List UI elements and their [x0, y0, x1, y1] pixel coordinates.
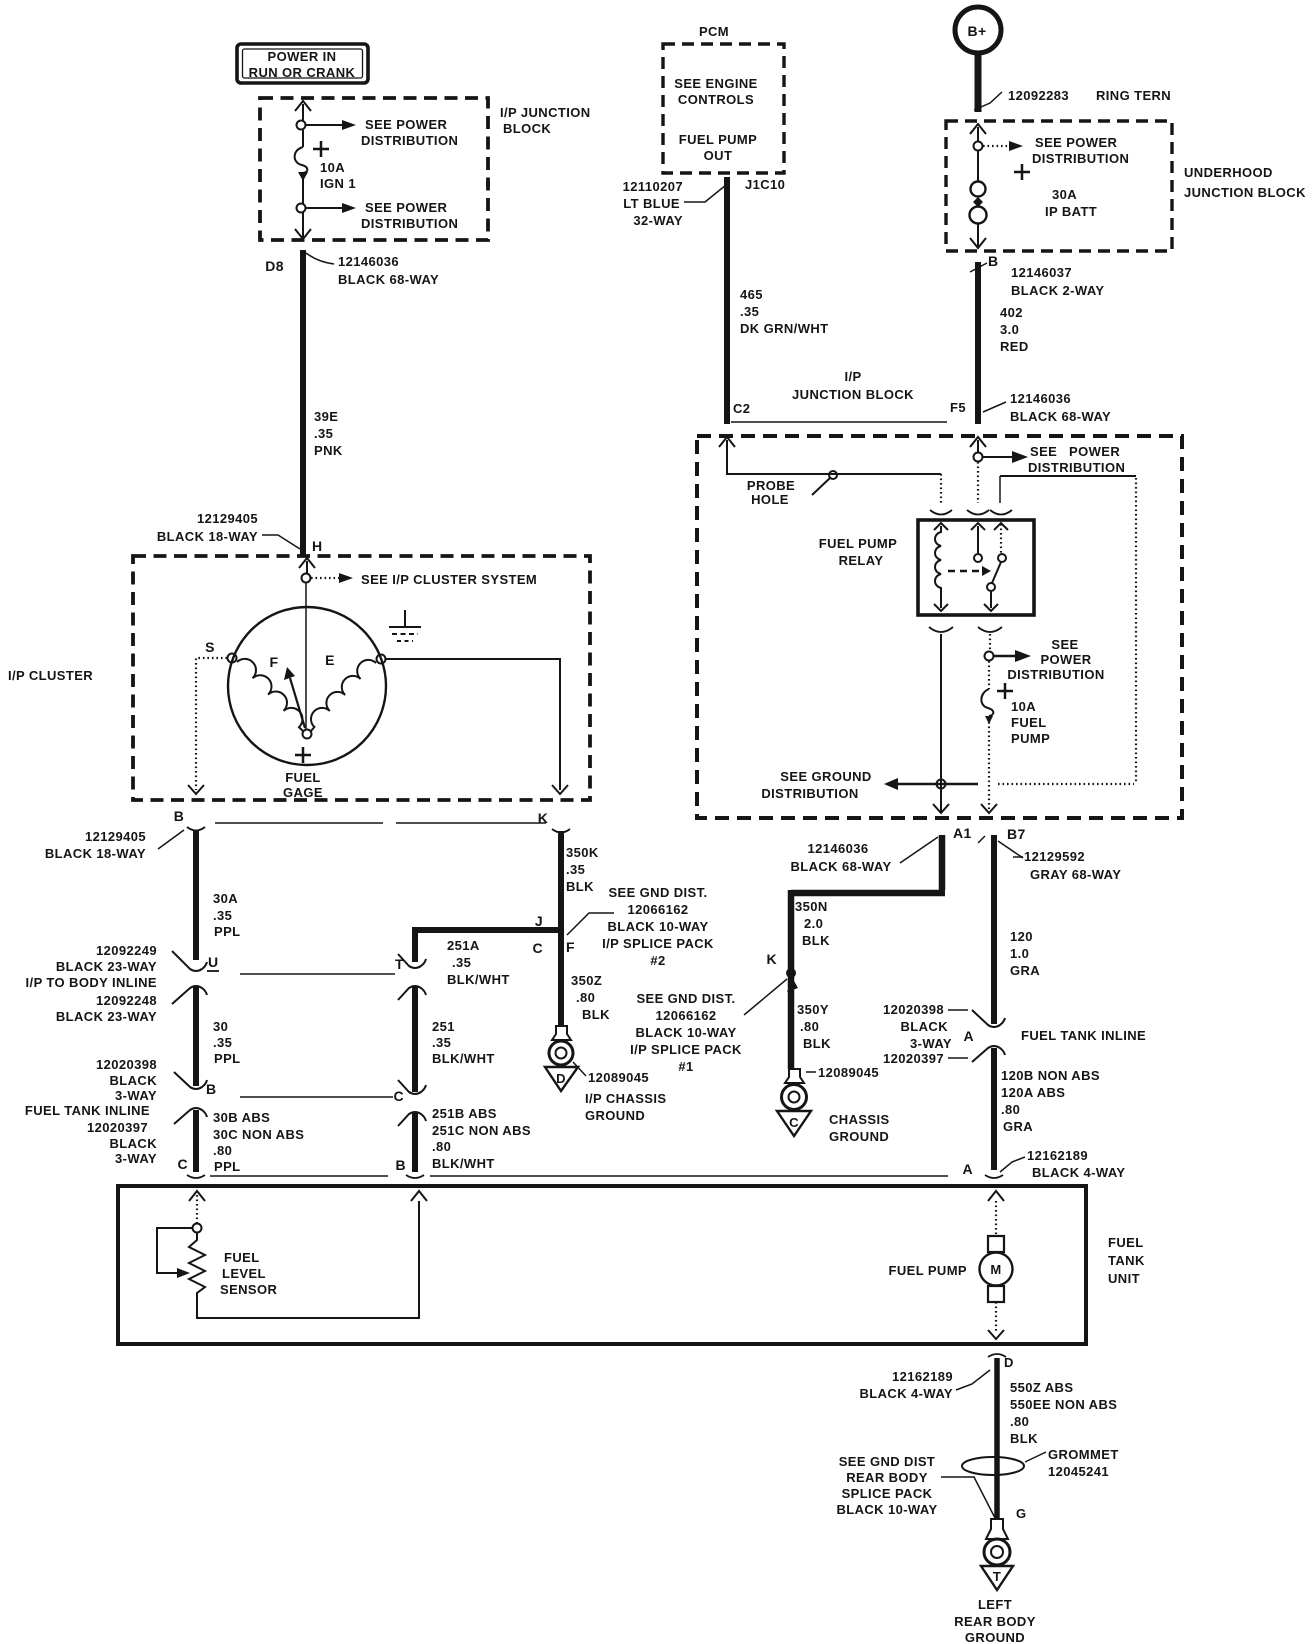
svg-text:DISTRIBUTION: DISTRIBUTION [1028, 460, 1125, 475]
node: ign feed terminal [297, 121, 306, 130]
relay coil [934, 523, 948, 611]
svg-text:30A: 30A [213, 891, 238, 906]
I/P cluster box [133, 556, 590, 800]
svg-text:BLACK 10-WAY: BLACK 10-WAY [607, 919, 708, 934]
svg-text:I/P SPLICE PACK: I/P SPLICE PACK [602, 936, 714, 951]
pin A at tank [962, 1148, 1125, 1180]
svg-text:550Z ABS: 550Z ABS [1010, 1380, 1073, 1395]
svg-text:FUEL PUMP: FUEL PUMP [679, 132, 757, 147]
fuse 10A IGN 1 [295, 130, 356, 204]
svg-text:12146037: 12146037 [1011, 265, 1072, 280]
pin B7 [978, 826, 1121, 882]
svg-text:T: T [993, 1569, 1001, 1584]
svg-text:.80: .80 [1001, 1102, 1020, 1117]
arrow see power distribution (mid) [994, 637, 1105, 682]
underhood junction block box [946, 121, 1172, 251]
svg-text:.80: .80 [213, 1143, 232, 1158]
svg-text:PPL: PPL [214, 924, 240, 939]
svg-text:I/P JUNCTION: I/P JUNCTION [500, 105, 591, 120]
svg-text:BLACK 18-WAY: BLACK 18-WAY [45, 846, 146, 861]
svg-text:POWER: POWER [1040, 652, 1091, 667]
wire 350Y .80 BLK [797, 1002, 831, 1051]
svg-text:FUEL PUMP: FUEL PUMP [819, 536, 897, 551]
node ign-feed terminal in block [974, 453, 983, 462]
fuse 10A fuel pump [981, 661, 1050, 812]
svg-text:12066162: 12066162 [655, 1008, 716, 1023]
svg-text:B: B [174, 808, 185, 824]
svg-text:J1C10: J1C10 [745, 177, 785, 192]
fuel level sensor [157, 1195, 419, 1318]
svg-text:SEE GROUND: SEE GROUND [780, 769, 871, 784]
wire S to pin B [196, 658, 227, 790]
svg-text:LEVEL: LEVEL [222, 1266, 266, 1281]
svg-text:1.0: 1.0 [1010, 946, 1029, 961]
svg-text:12089045: 12089045 [588, 1070, 649, 1085]
svg-text:J: J [535, 913, 543, 929]
svg-text:#1: #1 [678, 1059, 693, 1074]
svg-text:FUEL TANK INLINE: FUEL TANK INLINE [1021, 1028, 1146, 1043]
svg-text:SEE I/P CLUSTER SYSTEM: SEE I/P CLUSTER SYSTEM [361, 572, 537, 587]
svg-text:PROBE: PROBE [747, 478, 795, 493]
svg-text:.35: .35 [213, 1035, 232, 1050]
svg-text:I/P: I/P [844, 369, 861, 384]
svg-text:BLACK 18-WAY: BLACK 18-WAY [157, 529, 258, 544]
svg-text:12020398: 12020398 [883, 1002, 944, 1017]
wire ign feed entering block [295, 101, 311, 121]
svg-text:RING TERN: RING TERN [1096, 88, 1171, 103]
svg-text:PCM: PCM [699, 24, 729, 39]
svg-text:SEE POWER: SEE POWER [1035, 135, 1118, 150]
ring terminal 12089045 chassis ground [777, 1069, 811, 1136]
svg-text:POWER IN: POWER IN [268, 49, 337, 64]
svg-text:C: C [177, 1156, 188, 1172]
svg-text:SEE GND DIST.: SEE GND DIST. [608, 885, 707, 900]
pin D at tank bottom [860, 1354, 1014, 1401]
inline connector U (I/P to body) [172, 951, 219, 1004]
pin B at tank [395, 1157, 424, 1178]
svg-text:120: 120 [1010, 929, 1033, 944]
svg-text:BLACK 4-WAY: BLACK 4-WAY [1032, 1165, 1125, 1180]
gauge coil right [311, 660, 376, 731]
ground symbol cluster internal [389, 610, 421, 641]
svg-text:12146036: 12146036 [1010, 391, 1071, 406]
svg-text:LT BLUE: LT BLUE [623, 196, 680, 211]
arrow see power distribution (lower) [306, 200, 458, 231]
svg-text:IGN 1: IGN 1 [320, 176, 356, 191]
rear body splice pack label [836, 1454, 995, 1518]
svg-text:12110207: 12110207 [623, 179, 683, 194]
wire F5 entry [970, 437, 986, 452]
svg-text:.80: .80 [576, 990, 595, 1005]
svg-text:SENSOR: SENSOR [220, 1282, 278, 1297]
svg-text:BLK: BLK [1010, 1431, 1038, 1446]
arrow see power distribution (upper) [306, 117, 458, 148]
svg-text:I/P CLUSTER: I/P CLUSTER [8, 668, 93, 683]
wire gauge feed [305, 583, 307, 730]
pin J1C10 [623, 177, 786, 228]
svg-text:S: S [205, 639, 215, 655]
svg-text:BLK/WHT: BLK/WHT [432, 1156, 495, 1171]
wire relay 87-out to fuse [989, 634, 991, 651]
chassis ground label [806, 1065, 890, 1144]
grommet [962, 1447, 1119, 1479]
svg-text:REAR BODY: REAR BODY [954, 1614, 1036, 1629]
svg-text:DISTRIBUTION: DISTRIBUTION [1032, 151, 1129, 166]
svg-text:251B ABS: 251B ABS [432, 1106, 497, 1121]
svg-text:.35: .35 [432, 1035, 451, 1050]
node K splice [766, 951, 796, 978]
svg-text:M: M [990, 1262, 1001, 1277]
wire 120B/120A GRA [994, 1048, 1100, 1170]
svg-text:120B NON ABS: 120B NON ABS [1001, 1068, 1100, 1083]
svg-text:.35: .35 [452, 955, 471, 970]
svg-text:GAGE: GAGE [283, 785, 323, 800]
svg-text:10A: 10A [320, 160, 345, 175]
svg-text:GRAY 68-WAY: GRAY 68-WAY [1030, 867, 1121, 882]
svg-text:DISTRIBUTION: DISTRIBUTION [761, 786, 858, 801]
node batt feed terminal [974, 142, 983, 151]
svg-text:12129592: 12129592 [1024, 849, 1085, 864]
svg-text:U: U [208, 954, 219, 970]
connector 12129405 at B [45, 829, 184, 861]
svg-text:B: B [206, 1081, 217, 1097]
svg-text:GROMMET: GROMMET [1048, 1447, 1119, 1462]
svg-text:10A: 10A [1011, 699, 1036, 714]
svg-text:D8: D8 [265, 258, 284, 274]
wire 350K .35 BLK [561, 831, 599, 1026]
pin B underhood [970, 253, 1104, 298]
connector labels 12020398/12020397 right [883, 1002, 968, 1066]
svg-text:DISTRIBUTION: DISTRIBUTION [361, 216, 458, 231]
fuse 30A IP BATT [970, 150, 1098, 224]
svg-text:B: B [988, 253, 999, 269]
wire E-side to pin K [386, 659, 560, 790]
relay socket cups top [930, 510, 1012, 515]
svg-text:DISTRIBUTION: DISTRIBUTION [1007, 667, 1104, 682]
svg-text:.80: .80 [800, 1019, 819, 1034]
arrow see power distribution (underhood) [983, 135, 1129, 166]
wire 251 .35 BLK/WHT [415, 986, 495, 1092]
svg-text:3-WAY: 3-WAY [115, 1088, 157, 1103]
svg-text:BLACK 4-WAY: BLACK 4-WAY [860, 1386, 953, 1401]
relay socket cups bottom [929, 627, 1002, 632]
svg-text:BLACK 23-WAY: BLACK 23-WAY [56, 959, 157, 974]
node gauge common terminal [303, 730, 312, 739]
svg-text:SEE: SEE [1030, 444, 1057, 459]
svg-text:F5: F5 [950, 400, 966, 415]
svg-text:BLK/WHT: BLK/WHT [447, 972, 510, 987]
svg-text:OUT: OUT [704, 148, 733, 163]
wire 402 3.0 RED [978, 262, 1029, 424]
svg-text:12146036: 12146036 [807, 841, 868, 856]
svg-text:C2: C2 [733, 401, 750, 416]
svg-text:FUEL PUMP: FUEL PUMP [889, 1263, 967, 1278]
wire H entry [299, 558, 315, 574]
wire 120 1.0 GRA [994, 835, 1040, 1024]
splice pack #2 junction J/C/F [532, 913, 614, 956]
svg-text:UNDERHOOD: UNDERHOOD [1184, 165, 1273, 180]
svg-text:FUEL: FUEL [1108, 1235, 1144, 1250]
svg-text:POWER: POWER [1069, 444, 1120, 459]
B+ battery terminal [955, 7, 1001, 53]
svg-text:251A: 251A [447, 938, 480, 953]
svg-text:BLACK 68-WAY: BLACK 68-WAY [790, 859, 891, 874]
svg-text:BLK: BLK [802, 933, 830, 948]
svg-text:JUNCTION BLOCK: JUNCTION BLOCK [792, 387, 914, 402]
node: ign out terminal [297, 204, 306, 213]
svg-text:REAR BODY: REAR BODY [846, 1470, 928, 1485]
svg-text:12020397: 12020397 [87, 1120, 148, 1135]
svg-text:PUMP: PUMP [1011, 731, 1050, 746]
svg-text:I/P CHASSIS: I/P CHASSIS [585, 1091, 666, 1106]
wire 465 DK GRN/WHT [727, 177, 829, 424]
svg-text:30C NON ABS: 30C NON ABS [213, 1127, 304, 1142]
wire 30B/30C PPL [196, 1110, 304, 1174]
svg-text:UNIT: UNIT [1108, 1271, 1140, 1286]
arrow see I/P cluster system [311, 572, 537, 587]
svg-text:F: F [270, 654, 279, 670]
fuel pump relay box [819, 520, 1034, 615]
wire 350Z .80 BLK [571, 973, 610, 1022]
power-in label box [237, 44, 368, 83]
svg-text:.35: .35 [740, 304, 759, 319]
svg-text:BLK: BLK [566, 879, 594, 894]
svg-text:GRA: GRA [1003, 1119, 1033, 1134]
svg-text:LEFT: LEFT [978, 1597, 1012, 1612]
svg-text:SEE POWER: SEE POWER [365, 117, 448, 132]
wire 350N 2.0 BLK [791, 835, 945, 1069]
svg-text:12129405: 12129405 [197, 511, 258, 526]
svg-text:A: A [963, 1028, 974, 1044]
node S terminal [228, 654, 237, 663]
svg-text:SEE: SEE [1051, 637, 1078, 652]
svg-text:FUEL TANK INLINE: FUEL TANK INLINE [25, 1103, 150, 1118]
wire 30A .35 PPL [196, 831, 240, 960]
svg-text:C: C [789, 1115, 799, 1130]
svg-text:TANK: TANK [1108, 1253, 1145, 1268]
wire batt entry [970, 124, 986, 142]
wire 251B/251C [415, 1106, 531, 1172]
I/P junction block (small, top-left) [260, 98, 488, 240]
svg-text:3.0: 3.0 [1000, 322, 1019, 337]
relay actuation dashed link [948, 566, 991, 576]
svg-text:BLACK 68-WAY: BLACK 68-WAY [1010, 409, 1111, 424]
svg-text:SEE POWER: SEE POWER [365, 200, 448, 215]
svg-text:D: D [556, 1071, 566, 1086]
svg-text:350Y: 350Y [797, 1002, 829, 1017]
pin B of cluster [174, 808, 205, 831]
svg-text:30A: 30A [1052, 187, 1077, 202]
svg-text:PNK: PNK [314, 443, 343, 458]
connector face line B-C [240, 1096, 393, 1098]
svg-text:F: F [566, 939, 575, 955]
inline connector B (fuel tank inline) [174, 1072, 217, 1124]
fuel gage label [283, 747, 323, 800]
svg-text:32-WAY: 32-WAY [633, 213, 683, 228]
svg-text:550EE NON ABS: 550EE NON ABS [1010, 1397, 1117, 1412]
wire exit to D8 [295, 212, 311, 239]
wire B+ to ring term [975, 53, 982, 112]
svg-text:12020397: 12020397 [883, 1051, 944, 1066]
svg-text:I/P TO BODY INLINE: I/P TO BODY INLINE [26, 975, 157, 990]
wire 39E .35 PNK [303, 250, 343, 555]
wire loop to relay nc terminal [998, 476, 1136, 784]
wire C2 entry to relay coil [719, 437, 941, 503]
svg-text:G: G [1016, 1506, 1027, 1521]
svg-text:30: 30 [213, 1019, 228, 1034]
see ground distribution arrow [761, 769, 978, 801]
connector labels 12092249/12092248 [26, 943, 157, 1024]
svg-text:T: T [395, 956, 404, 972]
svg-text:BLACK 68-WAY: BLACK 68-WAY [338, 272, 439, 287]
svg-text:CONTROLS: CONTROLS [678, 92, 754, 107]
svg-text:BLACK: BLACK [901, 1019, 949, 1034]
node cluster feed terminal [302, 574, 311, 583]
pin C at tank [177, 1156, 205, 1178]
pin F5 [950, 391, 1111, 424]
fuel pump motor [889, 1201, 1013, 1339]
I/P chassis ground label [573, 1062, 666, 1123]
ring terminal left rear body ground [981, 1519, 1013, 1590]
svg-text:12092248: 12092248 [96, 993, 157, 1008]
svg-text:12146036: 12146036 [338, 254, 399, 269]
wire to relay switch common [977, 462, 979, 503]
svg-text:FUEL: FUEL [1011, 715, 1047, 730]
ring terminal 12092283 [974, 88, 1171, 110]
svg-text:DK GRN/WHT: DK GRN/WHT [740, 321, 829, 336]
node E-side terminal [377, 655, 386, 664]
wire exit to pin B [970, 223, 986, 248]
svg-text:.35: .35 [314, 426, 333, 441]
svg-text:C: C [393, 1088, 404, 1104]
svg-text:3-WAY: 3-WAY [910, 1036, 952, 1051]
svg-text:SEE GND DIST.: SEE GND DIST. [636, 991, 735, 1006]
left rear body ground label [954, 1597, 1036, 1644]
svg-text:.35: .35 [566, 862, 585, 877]
PCM box [663, 24, 784, 173]
svg-text:JUNCTION BLOCK: JUNCTION BLOCK [1184, 185, 1306, 200]
inline connector T [395, 954, 426, 1000]
cluster connector face line [215, 822, 546, 824]
svg-text:FUEL: FUEL [285, 770, 321, 785]
svg-text:DISTRIBUTION: DISTRIBUTION [361, 133, 458, 148]
svg-text:120A ABS: 120A ABS [1001, 1085, 1065, 1100]
svg-text:SPLICE PACK: SPLICE PACK [842, 1486, 933, 1501]
svg-text:12089045: 12089045 [818, 1065, 879, 1080]
splice pack #2 label [602, 885, 714, 968]
svg-text:BLACK 2-WAY: BLACK 2-WAY [1011, 283, 1104, 298]
svg-text:350Z: 350Z [571, 973, 602, 988]
svg-text:12092249: 12092249 [96, 943, 157, 958]
svg-text:.80: .80 [1010, 1414, 1029, 1429]
svg-text:.80: .80 [432, 1139, 451, 1154]
svg-text:12020398: 12020398 [96, 1057, 157, 1072]
exits A1 B7 [933, 804, 997, 813]
gauge needle [284, 667, 305, 728]
wire 251A elbow from splice [415, 930, 561, 987]
svg-text:BLACK: BLACK [110, 1136, 158, 1151]
svg-text:IP BATT: IP BATT [1045, 204, 1097, 219]
connector face line U-T [240, 973, 395, 975]
svg-text:RUN OR CRANK: RUN OR CRANK [249, 65, 356, 80]
svg-text:H: H [312, 538, 323, 554]
svg-text:BLK: BLK [582, 1007, 610, 1022]
ring terminal 12089045 I/P chassis ground [545, 1026, 578, 1091]
svg-text:12162189: 12162189 [892, 1369, 953, 1384]
svg-text:402: 402 [1000, 305, 1023, 320]
svg-text:30B ABS: 30B ABS [213, 1110, 270, 1125]
pin H connector 12129405 [157, 511, 323, 554]
svg-text:CHASSIS: CHASSIS [829, 1112, 890, 1127]
svg-text:251C NON ABS: 251C NON ABS [432, 1123, 531, 1138]
I/P junction block (large) [697, 436, 1182, 818]
svg-text:12045241: 12045241 [1048, 1464, 1109, 1479]
svg-text:GROUND: GROUND [965, 1630, 1025, 1644]
svg-text:465: 465 [740, 287, 763, 302]
svg-text:2.0: 2.0 [804, 916, 823, 931]
splice pack #1 label [630, 979, 798, 1074]
svg-text:HOLE: HOLE [751, 492, 789, 507]
svg-text:B7: B7 [1007, 826, 1026, 842]
svg-text:B: B [395, 1157, 406, 1173]
probe hole [747, 471, 837, 507]
svg-text:PPL: PPL [214, 1159, 240, 1174]
svg-text:39E: 39E [314, 409, 338, 424]
svg-text:RED: RED [1000, 339, 1029, 354]
svg-text:E: E [325, 652, 335, 668]
svg-text:A: A [962, 1161, 973, 1177]
svg-text:251: 251 [432, 1019, 455, 1034]
svg-text:350N: 350N [795, 899, 828, 914]
connector labels 12020398/12020397 left [25, 1057, 157, 1166]
svg-text:BLACK 23-WAY: BLACK 23-WAY [56, 1009, 157, 1024]
svg-text:BLK: BLK [803, 1036, 831, 1051]
svg-text:GROUND: GROUND [585, 1108, 645, 1123]
svg-text:FUEL: FUEL [224, 1250, 260, 1265]
fuel gage body [228, 607, 386, 765]
svg-text:K: K [766, 951, 777, 967]
svg-text:350K: 350K [566, 845, 599, 860]
svg-text:BLACK: BLACK [110, 1073, 158, 1088]
svg-text:12066162: 12066162 [627, 902, 688, 917]
inline connector C mid [393, 1080, 426, 1126]
svg-text:BLACK 10-WAY: BLACK 10-WAY [836, 1502, 937, 1517]
svg-text:#2: #2 [650, 953, 665, 968]
pin D8 [265, 253, 439, 287]
svg-text:3-WAY: 3-WAY [115, 1151, 157, 1166]
svg-text:SEE GND DIST: SEE GND DIST [839, 1454, 936, 1469]
svg-text:BLACK 10-WAY: BLACK 10-WAY [635, 1025, 736, 1040]
svg-text:GRA: GRA [1010, 963, 1040, 978]
wire 30 .35 PPL [196, 986, 240, 1086]
svg-text:C: C [532, 940, 543, 956]
svg-text:PPL: PPL [214, 1051, 240, 1066]
svg-text:B+: B+ [967, 23, 986, 39]
wire 550Z/550EE BLK [997, 1358, 1117, 1518]
pin K of cluster [538, 810, 570, 833]
wire relay 30-out to A1 [940, 634, 942, 812]
svg-text:BLOCK: BLOCK [503, 121, 551, 136]
svg-text:A1: A1 [953, 825, 972, 841]
svg-text:SEE ENGINE: SEE ENGINE [674, 76, 757, 91]
junction block connector face line [731, 421, 947, 423]
fuel tank unit box [118, 1186, 1145, 1344]
svg-text:GROUND: GROUND [829, 1129, 889, 1144]
svg-text:.35: .35 [213, 908, 232, 923]
node fuel pump fuse feed [985, 652, 994, 661]
svg-text:12129405: 12129405 [85, 829, 146, 844]
tank connector face line [210, 1175, 948, 1177]
